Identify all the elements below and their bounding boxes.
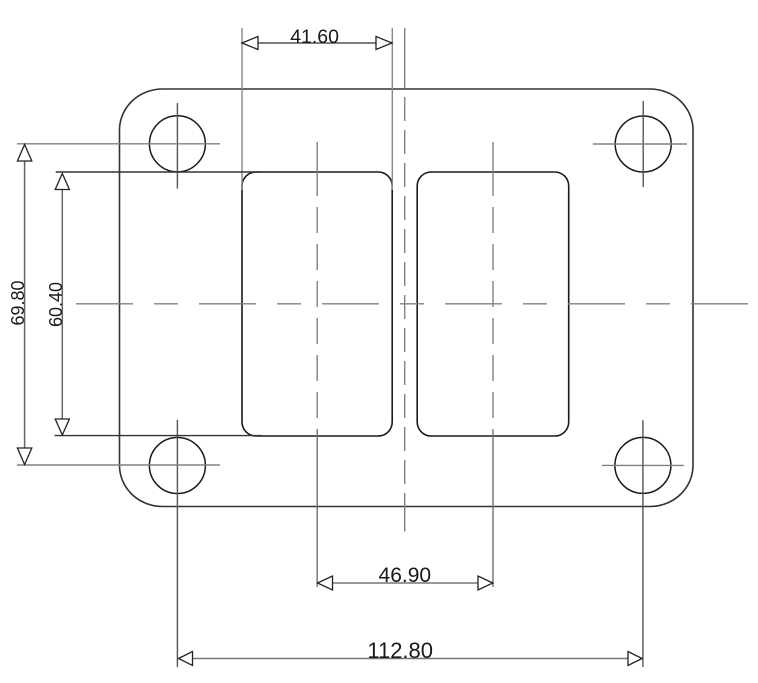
svg-text:46.90: 46.90	[379, 564, 432, 587]
left port center line (first long dash)	[316, 142, 318, 196]
crosshair vertical bottom-left hole / 112.80 left extension line	[176, 420, 178, 667]
46.90 right arrow	[478, 576, 493, 590]
horizontal center line	[76, 303, 748, 305]
crosshair horizontal bottom-right hole	[602, 464, 684, 466]
60.40 top arrow	[55, 174, 69, 190]
60.40 top extension line	[56, 171, 262, 173]
vertical center line (first long dash)	[404, 28, 406, 88]
60.40 dimension line	[61, 190, 63, 420]
left port center line dashed	[316, 207, 318, 430]
112.80 left arrow	[179, 652, 193, 666]
69.80 bottom extension line / bottom-left hole crosshair horizontal	[17, 464, 220, 466]
crosshair vertical bottom-right hole / 112.80 right extension line	[642, 420, 644, 667]
69.80 dimension line	[24, 161, 26, 448]
crosshair horizontal top-right hole	[593, 143, 687, 145]
41.60 right arrow	[376, 37, 392, 50]
svg-text:41.60: 41.60	[290, 26, 339, 48]
crosshair vertical top-left hole	[176, 103, 178, 189]
svg-text:60.40: 60.40	[46, 282, 66, 327]
right port center line dashed	[492, 207, 494, 430]
right port center line lower solid / 46.90 right extension line	[492, 430, 494, 587]
svg-text:69.80: 69.80	[8, 280, 28, 325]
60.40 bottom extension line	[55, 435, 263, 437]
bolt hole top-left	[149, 116, 205, 172]
bolt hole top-right	[615, 116, 671, 172]
112.80 right arrow	[628, 652, 642, 666]
right port center line (first long dash)	[492, 142, 494, 196]
bolt hole bottom-left	[149, 438, 205, 494]
46.90 dimension line	[333, 582, 479, 584]
left exhaust port	[242, 172, 392, 436]
right exhaust port	[417, 172, 569, 436]
bolt hole bottom-right	[615, 437, 671, 493]
vertical center line dashed	[404, 97, 406, 493]
41.60 left arrow	[242, 37, 258, 50]
69.80 bottom arrow	[17, 448, 31, 465]
left port center line lower solid / 46.90 left extension line	[316, 430, 318, 587]
svg-text:112.80: 112.80	[367, 638, 433, 663]
41.60 right extension line	[391, 28, 393, 190]
crosshair vertical top-right hole	[642, 101, 644, 187]
69.80 top arrow	[17, 145, 31, 162]
69.80 top extension line / top-left hole crosshair horizontal	[17, 143, 220, 145]
112.80 dimension line	[193, 658, 629, 660]
46.90 left arrow	[318, 576, 333, 590]
vertical center line (last long dash)	[404, 493, 406, 532]
flange plate outline	[120, 89, 694, 507]
60.40 bottom arrow	[55, 419, 69, 435]
41.60 dimension line	[258, 42, 376, 44]
41.60 left extension line	[241, 28, 243, 190]
